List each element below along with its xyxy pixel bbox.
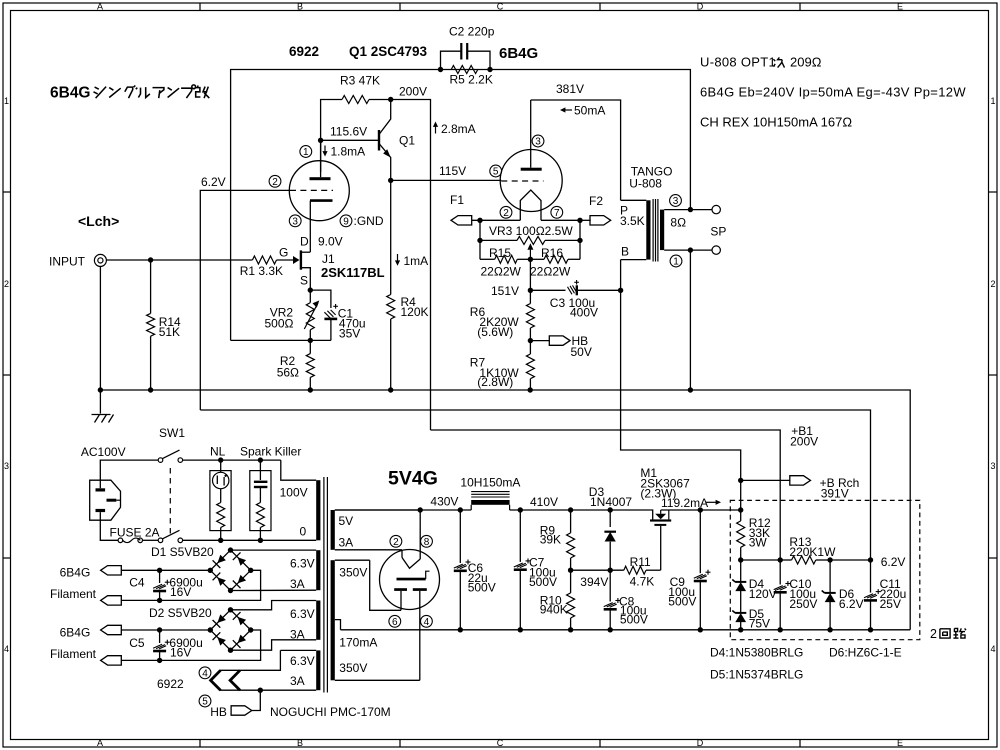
label 2kairo <box>930 627 966 641</box>
junction sec top <box>688 207 693 212</box>
svg-text:Spark Killer: Spark Killer <box>240 445 301 459</box>
junction input node <box>148 257 153 262</box>
svg-text:0: 0 <box>300 524 307 538</box>
svg-text:Filament: Filament <box>50 647 97 661</box>
svg-text:5V4G: 5V4G <box>388 468 438 490</box>
connector +B Rch <box>790 476 859 501</box>
wire D1 plus out <box>121 569 210 571</box>
label +B1 <box>790 424 818 449</box>
wire plate to OPT P <box>531 100 621 200</box>
svg-text:200V: 200V <box>399 85 427 99</box>
svg-text:Q1: Q1 <box>399 134 415 148</box>
resistor R14 <box>147 260 181 390</box>
wiper arrow VR3 <box>527 243 533 259</box>
svg-text:CH REX 10H150mA 167Ω: CH REX 10H150mA 167Ω <box>700 115 852 130</box>
wire sec bottom to SP <box>690 249 712 251</box>
connector 6B4G fil B <box>101 625 122 634</box>
bridge rectifier D2 <box>208 607 254 653</box>
svg-text:151V: 151V <box>491 284 519 298</box>
pin 1 sec label <box>670 255 682 267</box>
pin 8 5v4g label <box>421 535 433 547</box>
wire ground bus <box>100 390 910 630</box>
svg-text:3A: 3A <box>290 577 305 591</box>
svg-text:6B4G: 6B4G <box>499 45 538 62</box>
capacitor C4 <box>129 570 203 600</box>
svg-text:(5.6W): (5.6W) <box>477 325 513 339</box>
svg-text:C: C <box>497 2 504 12</box>
capacitor C8 <box>604 570 648 630</box>
pin 5 heater label <box>199 695 211 707</box>
svg-text:22Ω2W: 22Ω2W <box>481 265 522 279</box>
bridge rectifier D1 <box>208 547 254 593</box>
junction gnd input <box>98 387 103 392</box>
junction NL bottom <box>218 538 223 543</box>
svg-text:430V: 430V <box>430 495 458 509</box>
junction D3 bottom <box>608 568 613 573</box>
svg-text:S: S <box>300 274 308 288</box>
transistor Q1 <box>379 100 415 181</box>
svg-text:115V: 115V <box>439 164 466 178</box>
wire pin8 drop <box>419 510 421 559</box>
resistor R16 <box>517 240 580 278</box>
svg-text:3W: 3W <box>749 535 768 549</box>
junction VR3 wiper/R15-R16 <box>528 257 533 262</box>
svg-text:G: G <box>279 246 288 260</box>
wire D2 bottom to winding <box>231 640 317 650</box>
junction D3 rail <box>608 507 613 512</box>
wire OPT B to rail <box>621 260 741 510</box>
label 119.2mA <box>661 496 721 510</box>
wire R3 net <box>321 100 342 173</box>
svg-text:Q1 2SC4793: Q1 2SC4793 <box>349 44 428 59</box>
ac plug <box>90 480 121 520</box>
junction C2/R5 left <box>438 67 443 72</box>
svg-text:D4:1N5380BRLG: D4:1N5380BRLG <box>710 646 803 660</box>
svg-text:Filament: Filament <box>50 587 97 601</box>
junction gnd R4 <box>388 387 393 392</box>
capacitor C1 <box>324 304 365 340</box>
resistor R10 <box>540 570 575 630</box>
wire VR3 left leg <box>479 220 481 240</box>
svg-text:100V: 100V <box>280 485 308 499</box>
capacitor C7 <box>514 510 557 630</box>
svg-text:500Ω: 500Ω <box>265 317 294 331</box>
svg-text:3.5K: 3.5K <box>620 214 645 228</box>
svg-text:D1 S5VB20: D1 S5VB20 <box>151 545 214 559</box>
zener D5 <box>732 607 770 631</box>
svg-text:500V: 500V <box>529 575 557 589</box>
svg-text:6B4G Eb=240V Ip=50mA Eg=-43V P: 6B4G Eb=240V Ip=50mA Eg=-43V Pp=12W <box>700 85 966 100</box>
tube V1 plate <box>310 140 331 180</box>
svg-text:1: 1 <box>990 96 995 106</box>
wire pin2 drop <box>401 550 403 558</box>
junction gnd C8 <box>608 627 613 632</box>
svg-text:50mA: 50mA <box>574 104 605 118</box>
svg-text:350V: 350V <box>339 566 367 580</box>
svg-text:220K1W: 220K1W <box>789 545 836 559</box>
svg-text:250V: 250V <box>789 597 817 611</box>
junction base node <box>318 138 323 143</box>
wire Q1 base <box>321 139 379 141</box>
svg-text:56Ω: 56Ω <box>277 365 299 379</box>
wire rail 430V <box>335 509 471 511</box>
svg-text:VR3 100Ω2.5W: VR3 100Ω2.5W <box>489 224 573 238</box>
svg-text:C5: C5 <box>129 636 145 650</box>
pin 9 GND label <box>340 214 384 228</box>
svg-text:1: 1 <box>4 96 9 106</box>
connector Filament A <box>101 596 122 605</box>
label 50mA <box>560 104 605 118</box>
wire sec bottom to gnd <box>689 250 691 390</box>
wire heater bottom <box>220 689 317 691</box>
switch SW1b <box>158 530 182 542</box>
pin 2 label <box>269 175 281 187</box>
heater chevrons 6922 <box>211 670 240 690</box>
junction gnd R2 <box>308 387 313 392</box>
dashed box 2kairo <box>730 500 920 639</box>
winding 6.3V no2 <box>290 601 320 642</box>
junction C11 top <box>868 557 873 562</box>
tube V3 plate2a <box>394 588 407 610</box>
junction 200V reg <box>738 557 743 562</box>
svg-text:J1: J1 <box>322 252 335 266</box>
svg-text:<Lch>: <Lch> <box>78 213 119 229</box>
wire source node to C1 <box>310 290 331 308</box>
wire AC bottom run <box>183 539 317 541</box>
svg-text:NOGUCHI PMC-170M: NOGUCHI PMC-170M <box>270 705 391 719</box>
svg-text:2: 2 <box>4 279 9 289</box>
resistor R7 <box>470 341 535 390</box>
svg-text:51K: 51K <box>159 325 180 339</box>
resistor R15 <box>480 240 521 278</box>
svg-text:5: 5 <box>202 697 208 708</box>
transformer T1 secondary <box>660 210 690 251</box>
svg-text:C: C <box>497 738 504 748</box>
junction SK top <box>258 457 263 462</box>
svg-text:D: D <box>697 2 704 12</box>
svg-text:R11: R11 <box>630 555 651 569</box>
svg-text:(2.8W): (2.8W) <box>477 375 513 389</box>
junction gnd C10 <box>778 627 783 632</box>
junction C10 top <box>778 557 783 562</box>
svg-text:1: 1 <box>303 147 309 158</box>
jfet J1 <box>277 235 311 291</box>
title 6B4G single amp kai <box>50 85 209 102</box>
switch link dashed <box>169 468 171 534</box>
pin 4 5v4g label <box>421 615 433 627</box>
svg-text::GND: :GND <box>354 214 384 228</box>
svg-text:R5 2.2K: R5 2.2K <box>450 73 493 87</box>
wire sec top to SP <box>690 209 712 211</box>
svg-text:2: 2 <box>990 279 995 289</box>
pin 3 sec label <box>670 195 682 207</box>
svg-text:AC100V: AC100V <box>81 445 126 459</box>
label 1.8mA <box>322 145 365 159</box>
svg-text:1N4007: 1N4007 <box>590 495 632 509</box>
winding 6.3V no1 <box>290 550 320 591</box>
wire fil right to F2 node <box>541 219 580 221</box>
ground symbol <box>92 390 114 423</box>
junction gnd C9 <box>698 627 703 632</box>
svg-text:1: 1 <box>673 257 679 268</box>
junction R9 rail <box>568 507 573 512</box>
junction F1 node <box>477 218 482 223</box>
junction HB heater <box>258 688 263 693</box>
junction HB node <box>528 338 533 343</box>
junction 394V node <box>568 568 573 573</box>
svg-text:D6:HZ6C-1-E: D6:HZ6C-1-E <box>829 646 902 660</box>
wire AC to xfmr primary <box>281 460 316 480</box>
junction C4 minus <box>157 598 162 603</box>
svg-text:39K: 39K <box>540 533 561 547</box>
switch SW1a <box>158 450 182 462</box>
wire reg 200V node <box>741 559 781 561</box>
svg-text:D: D <box>300 235 309 249</box>
pin 2 5v4g label <box>390 535 402 547</box>
junction F2 node <box>577 218 582 223</box>
junction J1 source node <box>308 287 313 292</box>
svg-text:25V: 25V <box>880 597 901 611</box>
svg-text:6: 6 <box>392 617 398 628</box>
svg-text:U-808 OPT1: U-808 OPT1 <box>700 55 776 70</box>
capacitor C10 <box>774 560 818 630</box>
neon lamp NL <box>210 460 231 540</box>
junction gnd R10 <box>568 627 573 632</box>
svg-text:6922: 6922 <box>289 44 319 59</box>
resistor R12 <box>737 510 771 560</box>
svg-text:200V: 200V <box>790 435 818 449</box>
svg-text:E: E <box>897 738 903 748</box>
wire 151V to C3 <box>530 289 565 291</box>
winding 6.3V no3 <box>280 650 320 690</box>
connector Filament B <box>101 656 122 665</box>
wire input jack ground leg <box>99 266 101 390</box>
wire cathode node down <box>529 259 531 303</box>
junction gnd R14 <box>148 387 153 392</box>
choke 10H150mA <box>460 476 520 511</box>
terminal SP+ <box>712 205 720 213</box>
connector HB 50V <box>530 334 591 359</box>
svg-text:R15: R15 <box>489 246 511 260</box>
svg-text:FUSE 2A: FUSE 2A <box>110 526 160 540</box>
svg-text:4: 4 <box>4 644 9 654</box>
wire plug hot <box>100 460 158 488</box>
label 1mA <box>395 254 428 268</box>
svg-text:R3 47K: R3 47K <box>340 74 380 88</box>
svg-text:3: 3 <box>4 461 9 471</box>
wire D2 top to winding <box>231 601 317 610</box>
svg-text:HB: HB <box>210 705 227 719</box>
junction C9 rail <box>698 507 703 512</box>
capacitor C9 <box>668 510 710 630</box>
connector 6B4G fil A <box>101 566 122 575</box>
wire psu ground rail <box>341 629 911 631</box>
resistor R6 <box>470 304 535 341</box>
tube V2 plate <box>521 100 542 171</box>
svg-text:6.3V: 6.3V <box>290 654 315 668</box>
svg-text:4: 4 <box>424 617 430 628</box>
diode D3 <box>589 485 633 570</box>
pin 2 fil label <box>500 206 512 218</box>
junction gnd C11 <box>868 627 873 632</box>
svg-text:3: 3 <box>292 216 298 227</box>
wire rail 391V <box>661 509 741 511</box>
svg-text:A: A <box>97 2 103 12</box>
svg-text:3: 3 <box>990 461 995 471</box>
svg-text:U-808: U-808 <box>629 177 662 191</box>
capacitor C3 <box>550 280 621 320</box>
wire rail 410V <box>510 509 651 511</box>
pin 7 fil label <box>551 206 563 218</box>
transformer T2 primary <box>280 480 321 540</box>
wire 200V to +B1 bus <box>391 100 431 431</box>
tube V2 grid <box>501 180 543 182</box>
svg-text:5V: 5V <box>339 514 354 528</box>
svg-text:F1: F1 <box>450 193 464 207</box>
tube V3 plate1 <box>397 571 430 580</box>
wire +B1 bus3 <box>431 430 781 560</box>
winding HV 350-0-350 <box>331 560 420 680</box>
svg-text:B: B <box>297 2 303 12</box>
svg-text:6B4G: 6B4G <box>60 625 91 639</box>
junction VR3 right <box>577 238 582 243</box>
junction 430V rail pin8 <box>418 507 423 512</box>
svg-text:C2 220p: C2 220p <box>449 25 495 39</box>
svg-text:940K: 940K <box>540 602 568 616</box>
junction gnd R7 <box>528 387 533 392</box>
wire fuse to SW1b <box>143 539 159 541</box>
svg-text:170mA: 170mA <box>339 636 377 650</box>
svg-text:394V: 394V <box>580 575 608 589</box>
wire +B Rch <box>741 479 790 481</box>
pin 3 plate label <box>532 135 544 147</box>
svg-text:22Ω2W: 22Ω2W <box>530 265 571 279</box>
svg-text:2.8mA: 2.8mA <box>441 122 476 136</box>
wire D2 plus out <box>121 629 210 631</box>
resistor R4 <box>387 180 429 390</box>
pin 4 heater label <box>199 667 211 679</box>
wire NFB to cathode net <box>231 339 331 341</box>
zener D4 <box>732 560 776 613</box>
svg-text:R16: R16 <box>541 246 563 260</box>
svg-text:410V: 410V <box>530 495 558 509</box>
tube V2 filament <box>520 190 541 220</box>
pin 1 label <box>300 146 312 158</box>
terminal SP- <box>712 246 720 254</box>
tube V3 5V4G envelope <box>380 550 440 610</box>
svg-text:F2: F2 <box>589 194 603 208</box>
svg-text:B: B <box>621 244 629 258</box>
resistor R2 <box>277 340 315 390</box>
pin 5 grid label <box>490 165 502 177</box>
svg-text:2: 2 <box>393 537 399 548</box>
transformer T1 core <box>653 199 658 262</box>
resistor R13 <box>780 535 836 564</box>
wire AC top run <box>183 459 281 461</box>
svg-text:A: A <box>97 738 103 748</box>
svg-text:2: 2 <box>503 208 509 219</box>
note U-808 OPT <box>700 55 822 70</box>
junction 200V node <box>388 97 393 102</box>
junction +B Rch tap <box>738 478 743 483</box>
svg-text:4: 4 <box>202 668 208 679</box>
svg-text:SW1: SW1 <box>159 426 185 440</box>
resistor R11 <box>624 555 661 588</box>
svg-text:4: 4 <box>990 644 995 654</box>
junction C7 rail <box>518 507 523 512</box>
svg-text:C4: C4 <box>129 576 145 590</box>
connector F1 <box>450 193 520 225</box>
tube V1 grid <box>290 189 333 191</box>
pot VR3 <box>480 224 580 244</box>
svg-text:75V: 75V <box>749 617 770 631</box>
capacitor C5 <box>129 630 203 660</box>
spark killer RC <box>250 460 271 540</box>
junction R12 rail <box>738 507 743 512</box>
svg-text:B: B <box>297 738 303 748</box>
wire plug neutral <box>100 512 118 540</box>
wire NFB bus top <box>231 70 691 341</box>
junction C2/R5 right <box>487 67 492 72</box>
svg-text:INPUT: INPUT <box>49 254 86 268</box>
svg-text:2SK117BL: 2SK117BL <box>321 265 385 280</box>
junction gnd SP <box>688 387 693 392</box>
tube V3 filament <box>402 558 420 569</box>
junction D6 top <box>827 557 832 562</box>
svg-text:400V: 400V <box>570 306 598 320</box>
zener D6 <box>822 560 864 630</box>
svg-text:NL: NL <box>210 445 226 459</box>
svg-text:R1 3.3K: R1 3.3K <box>240 264 283 278</box>
pot VR2 <box>265 290 320 340</box>
wire D1 minus out <box>121 570 260 600</box>
svg-text:1mA: 1mA <box>404 254 429 268</box>
svg-text:35V: 35V <box>339 326 360 340</box>
input jack <box>94 254 106 266</box>
wire input to R1 <box>106 259 252 261</box>
junction C5 minus <box>157 658 162 663</box>
junction gnd C7 <box>518 627 523 632</box>
junction C5 plus <box>157 627 162 632</box>
svg-text:500V: 500V <box>468 581 496 595</box>
svg-text:209Ω: 209Ω <box>790 55 822 70</box>
capacitor C11 <box>864 560 906 630</box>
transformer T1 primary <box>620 200 651 259</box>
junction C6 rail <box>458 507 463 512</box>
connector HB psu <box>210 690 260 719</box>
junction NL top <box>218 457 223 462</box>
pin 6 5v4g label <box>389 615 401 627</box>
svg-text:381V: 381V <box>556 82 584 96</box>
svg-text:3A: 3A <box>339 535 354 549</box>
svg-text:9.0V: 9.0V <box>318 235 343 249</box>
wire D1 top to winding <box>231 549 317 551</box>
svg-text:6.2V: 6.2V <box>201 175 226 189</box>
svg-text:6.3V: 6.3V <box>290 607 315 621</box>
svg-text:D5:1N5374BRLG: D5:1N5374BRLG <box>710 668 803 682</box>
svg-text:350V: 350V <box>339 661 367 675</box>
wire 6.2V node <box>830 559 870 561</box>
svg-text:4.7K: 4.7K <box>630 574 655 588</box>
svg-text:D: D <box>697 738 704 748</box>
svg-text:115.6V: 115.6V <box>330 125 367 139</box>
tube V3 plate2b <box>413 588 427 680</box>
svg-text:6.3V: 6.3V <box>290 557 315 571</box>
svg-text:6.2V: 6.2V <box>881 555 906 569</box>
wire 115V line <box>391 179 502 181</box>
svg-text:500V: 500V <box>620 612 648 626</box>
wire VR3 right leg <box>579 220 581 240</box>
